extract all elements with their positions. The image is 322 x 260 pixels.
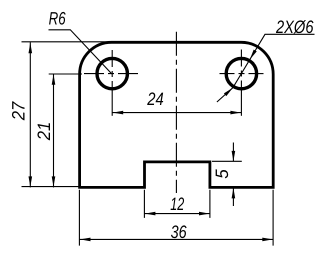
- dimension line 12: [145, 213, 210, 215]
- extension lines for 36: [79, 190, 273, 246]
- svg-text:21: 21: [34, 122, 54, 141]
- leader 2XØ6: [217, 34, 315, 102]
- centerline plate vertical: [175, 32, 177, 193]
- extension lines for 12: [144, 190, 210, 218]
- svg-text:12: 12: [170, 194, 184, 214]
- hole left: [97, 58, 127, 88]
- dimension line 5 lower: [232, 188, 234, 206]
- centerline vertical right hole: [240, 50, 242, 97]
- dimension line 21: [53, 74, 55, 187]
- svg-text:27: 27: [9, 101, 29, 121]
- svg-text:2XØ6: 2XØ6: [275, 17, 314, 37]
- centerline horizontal left hole: [84, 73, 141, 75]
- centerline horizontal right hole: [220, 73, 264, 75]
- svg-text:24: 24: [146, 89, 163, 109]
- extension line for 21 at hole center: [49, 73, 82, 75]
- extension line for 5: [212, 160, 242, 162]
- leader R6: [49, 30, 112, 74]
- extension line top for 27: [22, 41, 112, 43]
- svg-text:R6: R6: [49, 8, 67, 28]
- hole right: [226, 58, 256, 88]
- extension line bottom for 27 and 21: [22, 186, 80, 188]
- dimension line 36: [80, 238, 274, 240]
- svg-text:5: 5: [212, 168, 232, 178]
- centerline vertical left hole: [111, 50, 113, 96]
- dimension line 24: [112, 112, 241, 114]
- plate outline: [80, 42, 274, 187]
- svg-text:36: 36: [171, 222, 188, 242]
- dimension line 5 upper: [232, 143, 234, 162]
- dimension line 27: [29, 42, 31, 187]
